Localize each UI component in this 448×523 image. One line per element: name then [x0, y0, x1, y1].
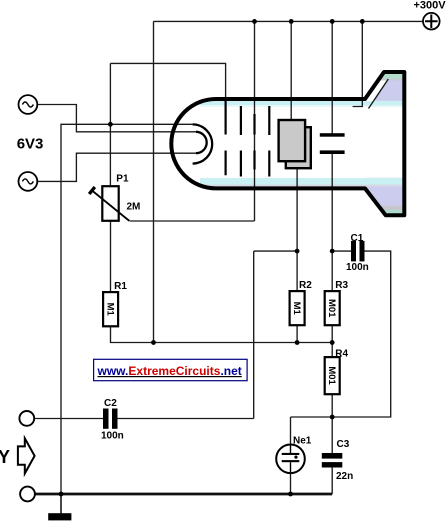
terminal Y top — [19, 411, 34, 426]
svg-text:C3: C3 — [337, 439, 350, 450]
CRT tube V1 flare top mint stripe — [379, 74, 402, 79]
junction dot rail-anode — [360, 19, 365, 24]
wire: P1 chain vertical — [109, 63, 111, 186]
junction dot bus-R2 — [295, 340, 300, 345]
junction dot rail-Ybar — [330, 19, 335, 24]
plate pair Y upper bar — [320, 133, 345, 137]
svg-text:C2: C2 — [104, 398, 117, 409]
junction dot R3 top node — [330, 249, 335, 254]
potentiometer P1 body — [102, 186, 118, 221]
wire: +300V top rail — [154, 20, 424, 22]
grid g1 electrode — [225, 100, 227, 175]
deflection plate X1 (front) — [279, 120, 306, 161]
svg-text:Y: Y — [0, 447, 10, 467]
cathode k arc — [193, 124, 213, 163]
anode a3 electrode — [268, 106, 270, 177]
wire: ground stub — [60, 494, 62, 513]
wire: C1 left lead — [332, 250, 351, 252]
CRT tube V1 flare bottom mint stripe — [382, 210, 403, 213]
junction dot rail-X1 — [289, 19, 294, 24]
capacitor C2 — [103, 409, 109, 429]
wire: Y input line left of C2 — [34, 418, 103, 420]
CRT tube V1 bottom cyan stripe — [200, 178, 403, 185]
junction dot bus-R3R4 — [330, 340, 335, 345]
wire: C3 top lead — [331, 417, 333, 453]
wire: rail down to deflection plate X1 — [290, 21, 292, 122]
CRT tube V1 envelope flare fill — [365, 72, 404, 215]
junction dot rail-ground — [59, 492, 64, 497]
watermark box www.ExtremeCircuits.net — [94, 359, 248, 380]
wire: Y coupling vertical down to C2 line — [253, 251, 255, 418]
AC heater source G1 — [19, 95, 38, 114]
wire: plate X2 down to R2 node — [296, 168, 298, 291]
junction dot cathode-P1 — [108, 122, 113, 127]
wire: Y coupling horizontal at R2 node — [254, 250, 297, 252]
svg-text:www.ExtremeCircuits.net: www.ExtremeCircuits.net — [97, 364, 242, 378]
resistor R3 — [325, 291, 340, 325]
heater f U-arc — [196, 132, 207, 153]
wire: rail down to plate pair upper bar — [331, 21, 333, 134]
svg-text:R4: R4 — [335, 348, 348, 359]
wire: Ne1 bottom lead — [290, 462, 292, 494]
wire: cathode line to ground — [61, 124, 193, 494]
svg-text:M1: M1 — [104, 303, 115, 317]
svg-text:M01: M01 — [326, 366, 337, 385]
anode a1 electrode — [240, 106, 242, 177]
CRT tube V1 flare bottom gray stripe — [378, 206, 402, 210]
svg-text:R1: R1 — [114, 281, 127, 292]
neon lamp Ne1 — [276, 445, 305, 474]
junction dot R2 top node — [295, 249, 300, 254]
potentiometer P1 wiper arrow — [92, 191, 130, 222]
junction dot rail-a2 — [252, 19, 257, 24]
junction dot R4-C3 node — [330, 415, 335, 420]
resistor R4 — [325, 357, 340, 394]
junction dot bus-railcorner — [151, 340, 156, 345]
resistor R2 — [290, 291, 305, 325]
wire: final anode diagonal inside flare — [369, 79, 389, 109]
wire: P1 to R1 — [110, 221, 112, 292]
deflection plate X2 (rear) — [286, 127, 311, 168]
CRT tube V1 white wedge between flare wall and anode coating — [366, 80, 387, 101]
wire: Ne1 top lead — [290, 417, 292, 453]
terminal +300V — [423, 13, 440, 30]
CRT tube V1 top cyan stripe — [200, 101, 403, 187]
svg-text:R3: R3 — [335, 280, 348, 291]
svg-text:R2: R2 — [299, 280, 312, 291]
svg-text:100n: 100n — [101, 430, 124, 441]
svg-text:Ne1: Ne1 — [293, 436, 312, 447]
svg-text:+300V: +300V — [414, 0, 447, 12]
wire: C1 right lead and corner down to R4 bus — [291, 251, 391, 417]
wire: Y line C2 to corner — [118, 418, 254, 420]
junction dot rail-Ne1 — [288, 492, 293, 497]
CRT tube V1 envelope outline — [171, 72, 404, 215]
svg-text:P1: P1 — [116, 174, 129, 185]
terminal Y bottom — [20, 487, 35, 502]
ground chassis bar — [48, 513, 71, 520]
wire: rail to a2 electrode through tube down to focus line — [254, 21, 256, 221]
AC heater source G2 — [19, 172, 38, 191]
svg-text:M01: M01 — [326, 299, 337, 318]
capacitor C3 — [322, 453, 343, 459]
capacitor C1 — [351, 241, 356, 262]
wire: rail down to final anode stub — [353, 21, 363, 106]
svg-text:M1: M1 — [291, 302, 302, 316]
wire: R3 bottom to R4 top — [331, 325, 333, 357]
resistor R1 — [103, 292, 118, 326]
anode a2 focus electrode — [253, 114, 255, 170]
wire: plate pair lower bar down through R3 to R4 — [331, 154, 333, 291]
wire: R1 bottom to bus — [111, 326, 333, 342]
svg-text:100n: 100n — [346, 262, 369, 273]
wire: bottom ground rail — [35, 493, 332, 496]
wire: AC source G2 to heater bottom — [37, 153, 196, 181]
svg-text:C1: C1 — [351, 233, 364, 244]
CRT tube V1 body interior fill — [171, 99, 365, 188]
wire: AC source G1 to heater top — [37, 105, 196, 132]
Y input arrow symbol — [18, 438, 35, 473]
svg-text:22n: 22n — [336, 471, 353, 482]
wire: focus line from P1 wiper — [130, 220, 255, 222]
wire: R2 bottom to bus — [296, 325, 298, 342]
wire: C3 bottom lead to rail corner — [331, 468, 333, 494]
svg-text:6V3: 6V3 — [17, 135, 44, 152]
svg-text:2M: 2M — [127, 202, 141, 213]
CRT tube V1 interior white band across flare — [363, 107, 403, 178]
wire: grid g1 route from P1 top node — [110, 63, 225, 101]
plate pair Y lower bar — [320, 150, 345, 154]
CRT tube V1 flare top gray stripe — [378, 79, 402, 81]
wire: rail left corner down to resistor bus — [153, 21, 155, 342]
wire: R4 bottom to bus417 — [331, 394, 333, 417]
